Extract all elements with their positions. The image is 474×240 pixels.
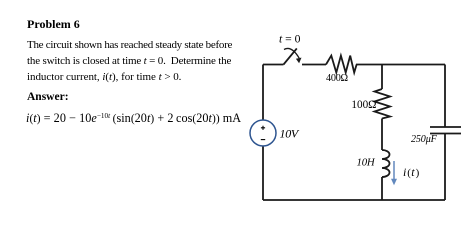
svg-text:t = 0: t = 0 [279, 32, 301, 45]
svg-text:400Ω: 400Ω [326, 73, 349, 84]
svg-text:10H: 10H [357, 156, 376, 168]
svg-text:100Ω: 100Ω [351, 99, 376, 111]
svg-text:10V: 10V [280, 127, 300, 141]
svg-text:250μF: 250μF [411, 134, 438, 145]
svg-text:t: t [411, 165, 415, 179]
svg-text:i: i [403, 165, 406, 179]
svg-text:): ) [416, 167, 420, 179]
